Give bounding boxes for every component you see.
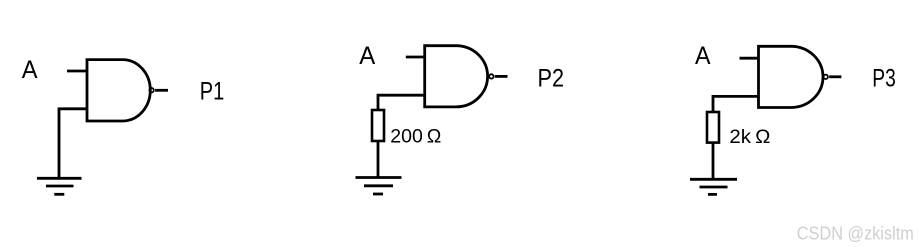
- svg-text:A: A: [359, 42, 375, 70]
- wire (input A stub to gate 2 top input): [406, 56, 425, 59]
- wire (gate 2 bottom input to resistor): [378, 95, 425, 110]
- watermark CSDN @zkisltm: [797, 224, 914, 244]
- node A (input label, circuit 3): [695, 42, 711, 70]
- value label 2k ohm: [729, 126, 770, 148]
- svg-text:P3: P3: [872, 65, 896, 93]
- node P2 (output label): [538, 64, 565, 92]
- svg-text:2k Ω: 2k Ω: [729, 126, 770, 148]
- svg-text:200 Ω: 200 Ω: [390, 126, 441, 148]
- NAND gate 2 body: [425, 46, 488, 107]
- ground (circuit 2): [356, 178, 402, 195]
- wire (resistor 3 bottom to ground): [712, 143, 715, 180]
- NAND gate 1 inversion bubble: [149, 88, 153, 92]
- wire (resistor 2 bottom to ground): [377, 141, 380, 178]
- svg-text:CSDN @zkisltm: CSDN @zkisltm: [797, 224, 914, 244]
- value label 200 ohm: [390, 126, 441, 148]
- wire (gate 3 output stub): [829, 75, 841, 78]
- wire (gate 1 bottom input to ground): [59, 109, 87, 178]
- node A (input label, circuit 1): [22, 56, 38, 84]
- wire (gate 1 output stub): [155, 89, 168, 92]
- ground (circuit 3): [690, 179, 737, 194]
- node P1 (output label): [200, 78, 225, 106]
- svg-text:A: A: [22, 56, 38, 84]
- NAND gate 1 body: [87, 60, 150, 121]
- wire (gate 3 bottom input to resistor): [713, 96, 759, 112]
- svg-text:P2: P2: [538, 64, 565, 92]
- NAND gate 2 inversion bubble: [489, 74, 493, 78]
- svg-text:A: A: [695, 42, 711, 70]
- node A (input label, circuit 2): [359, 42, 375, 70]
- wire (gate 2 output stub): [495, 75, 508, 78]
- NAND gate 3 body: [759, 46, 824, 107]
- resistor 200 ohm (circuit 2): [372, 110, 384, 141]
- resistor 2k ohm (circuit 3): [707, 112, 719, 143]
- NAND gate 3 inversion bubble: [824, 75, 828, 79]
- ground (circuit 1): [37, 178, 82, 194]
- wire (input A stub to gate 3 top input): [740, 57, 759, 60]
- svg-text:P1: P1: [200, 78, 225, 106]
- wire (input A stub to gate 1 top input): [67, 70, 87, 73]
- node P3 (output label): [872, 65, 896, 93]
